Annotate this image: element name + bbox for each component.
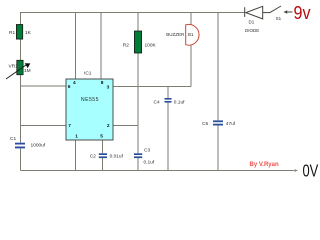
svg-text:VR1: VR1 [9, 64, 19, 70]
wire: IC pin 5 through C2 to bottom rail [102, 140, 104, 171]
svg-text:2: 2 [107, 123, 110, 129]
resistor R1 [16, 25, 22, 40]
svg-text:0.1uf: 0.1uf [144, 160, 155, 166]
capacitor C4 [165, 98, 172, 103]
svg-text:47uf: 47uf [226, 121, 236, 127]
wire: buzzer branch (top rail to buzzer, buzzer to pin 3 wire) [190, 13, 192, 87]
op-amp/IC U1 NE555 body [66, 79, 113, 140]
svg-text:C1: C1 [10, 136, 16, 142]
svg-text:1: 1 [75, 134, 78, 140]
variable resistor VR1 [6, 60, 30, 79]
wire: IC pin 8 to top rail [100, 13, 102, 80]
switch S1 [270, 6, 293, 14]
resistor R2 [134, 31, 141, 53]
capacitor C1 [15, 143, 25, 149]
wire: IC pin 3 output horizontal [113, 86, 191, 88]
wire: IC pin 7 horizontal [21, 125, 67, 127]
wire: IC pin 1 to bottom rail [75, 140, 77, 171]
svg-text:C2: C2 [90, 154, 96, 160]
svg-text:8: 8 [101, 80, 104, 86]
svg-text:5: 5 [100, 133, 103, 139]
svg-text:1K: 1K [25, 30, 32, 36]
wire: IC pin 4 to top rail [75, 13, 77, 80]
buzzer B1 [186, 24, 199, 45]
wire: R2 branch vertical (top rail to bottom rail through R2 and C3) [137, 13, 139, 171]
svg-text:4: 4 [73, 80, 76, 86]
svg-text:1M: 1M [24, 68, 31, 74]
capacitor C5 [213, 120, 223, 125]
svg-text:R1: R1 [9, 30, 15, 36]
svg-text:C4: C4 [154, 99, 160, 105]
diode D1 [245, 6, 270, 19]
wire: bottom 0V rail [21, 170, 295, 172]
svg-text:D1: D1 [249, 20, 255, 25]
svg-text:S1: S1 [276, 16, 282, 21]
svg-text:3: 3 [107, 85, 110, 91]
wire: left vertical branch (R1/VR1/C1 branch) [20, 12, 22, 171]
svg-text:0.1uf: 0.1uf [174, 99, 185, 105]
wire: C4 branch from pin 3 wire to bottom rail [167, 87, 169, 171]
svg-text:0V: 0V [303, 160, 319, 178]
svg-text:R2: R2 [123, 43, 129, 49]
svg-text:7: 7 [68, 123, 71, 129]
svg-text:100K: 100K [145, 43, 157, 49]
terminal arrow 0V rail end [295, 169, 299, 172]
wire: IC pin 2 horizontal to R2 branch [113, 125, 138, 127]
svg-text:C3: C3 [144, 148, 150, 154]
wire: top +9V rail [21, 12, 245, 14]
svg-text:6: 6 [68, 84, 71, 90]
svg-text:B1: B1 [188, 32, 194, 37]
wire: IC pin 6 horizontal [21, 85, 67, 87]
svg-text:BUZZER: BUZZER [166, 32, 185, 37]
svg-text:DIODE: DIODE [245, 28, 259, 33]
capacitor C2 [99, 153, 107, 158]
svg-text:1000uf: 1000uf [31, 143, 46, 149]
capacitor C3 [134, 153, 142, 158]
svg-text:By V.Ryan: By V.Ryan [250, 162, 279, 168]
svg-text:C5: C5 [202, 121, 208, 127]
svg-text:IC1: IC1 [84, 71, 92, 77]
svg-text:9v: 9v [294, 3, 311, 23]
svg-text:NE555: NE555 [81, 97, 99, 103]
svg-text:0.01uf: 0.01uf [110, 154, 124, 160]
wire: C5 branch (top rail to bottom rail through C5) [217, 13, 219, 171]
